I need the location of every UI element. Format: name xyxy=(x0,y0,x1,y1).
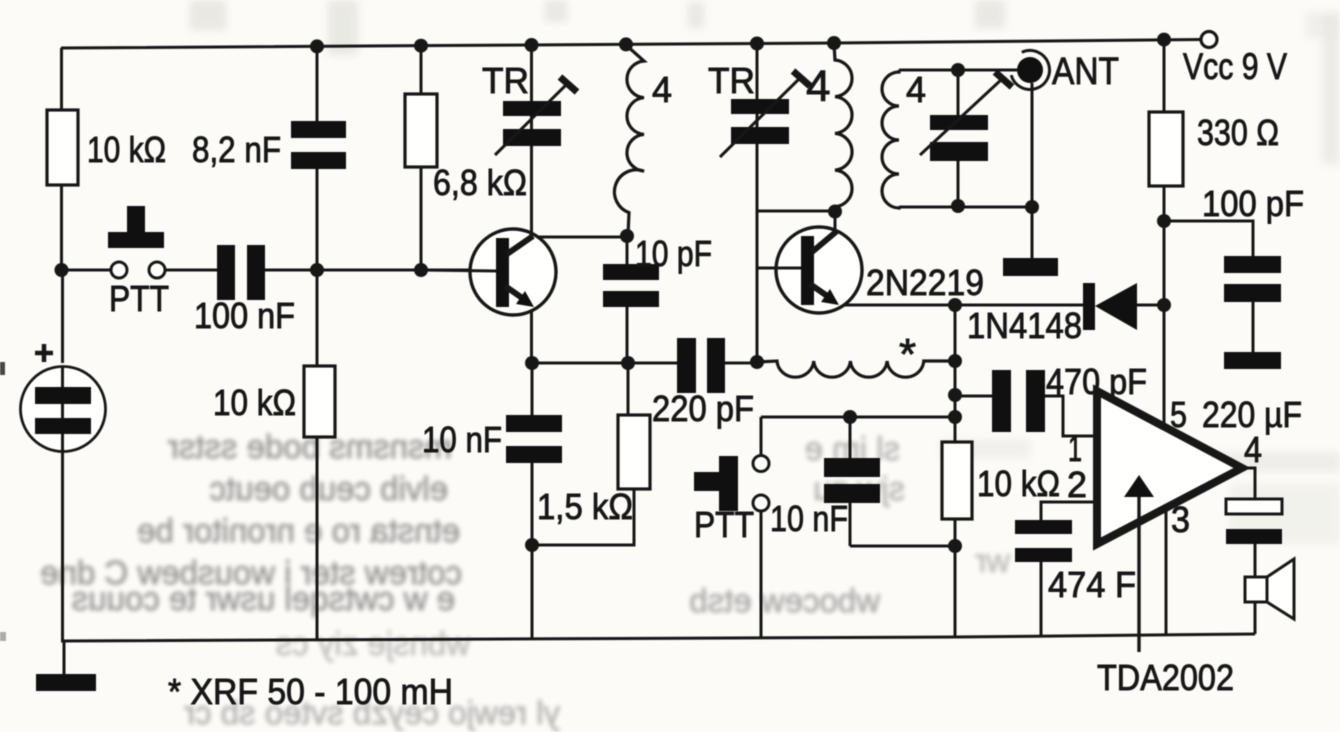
svg-text:4: 4 xyxy=(1244,429,1262,470)
svg-text:470 pF: 470 pF xyxy=(1046,361,1147,402)
node diode left xyxy=(948,298,962,312)
svg-text:Vcc 9 V: Vcc 9 V xyxy=(1183,46,1287,87)
svg-text:10 nF: 10 nF xyxy=(770,498,848,539)
wire mid row left of 220pF xyxy=(532,362,677,365)
wire diode row xyxy=(955,304,1164,307)
transistor Q1 xyxy=(421,229,556,315)
svg-text:5: 5 xyxy=(1170,394,1187,435)
svg-text:*: * xyxy=(899,330,916,379)
svg-text:PTT: PTT xyxy=(694,504,754,545)
node 1.5k bottom xyxy=(525,538,539,552)
wire tank top to ANT xyxy=(899,69,1017,72)
svg-text:1: 1 xyxy=(1068,428,1082,469)
wire Q2 base xyxy=(757,267,801,270)
wire opamp pin2 to 474F xyxy=(1041,502,1093,636)
node 10nF2 bottom xyxy=(948,539,962,553)
svg-text:10 pF: 10 pF xyxy=(635,233,712,274)
svg-text:2: 2 xyxy=(1067,464,1087,505)
svg-text:8,2 nF: 8,2 nF xyxy=(192,129,281,170)
wire opamp pin4 output xyxy=(1242,468,1255,634)
wire tank bottom row xyxy=(899,206,1032,209)
resistor R4 1.5k xyxy=(618,415,650,489)
resistor R2 10k (mic bias) xyxy=(304,366,335,437)
svg-text:3: 3 xyxy=(1171,499,1190,540)
inductor L3 transformer secondary 4 turns xyxy=(882,70,899,208)
wire PTT2 top row xyxy=(761,417,955,455)
wire opamp pin3 down xyxy=(1165,507,1168,634)
node PTT2 row xyxy=(948,410,962,424)
svg-text:wbocew etsb: wbocew etsb xyxy=(689,582,881,619)
switch PTT2 xyxy=(694,456,769,512)
node 10nF2 top xyxy=(843,410,857,424)
svg-text:TDA2002: TDA2002 xyxy=(1097,657,1234,698)
microphone MIC xyxy=(21,344,106,452)
capacitor C7 470pF xyxy=(992,370,1045,432)
wire bottom ground rail xyxy=(61,634,1255,641)
node PTT row R3 xyxy=(414,263,428,277)
wire Q1 collector node to L1 node xyxy=(532,236,628,239)
capacitor C9 474 xyxy=(1015,520,1072,562)
node 470pF xyxy=(948,388,962,402)
svg-text:10 nF: 10 nF xyxy=(422,419,502,460)
ground antenna tank xyxy=(1003,258,1058,276)
node L2 bottom xyxy=(828,205,842,219)
node rail C1 xyxy=(310,39,324,53)
wire 470pF to pin1 xyxy=(1045,396,1093,436)
svg-text:10 kΩ: 10 kΩ xyxy=(213,382,296,423)
svg-text:e w cwtsqel uswr te couus: e w cwtsqel uswr te couus xyxy=(72,580,455,617)
svg-text:1N4148: 1N4148 xyxy=(967,305,1082,346)
node 100pF branch xyxy=(1157,214,1171,228)
svg-text:ANT: ANT xyxy=(1052,51,1119,93)
svg-text:100 nF: 100 nF xyxy=(194,295,295,336)
wire column 955 node stack xyxy=(954,305,957,636)
wire ground stub left xyxy=(63,641,66,674)
node rail L2 xyxy=(827,36,841,50)
wire PTT2 bottom column xyxy=(760,511,763,637)
svg-text:220 pF: 220 pF xyxy=(652,388,754,429)
resistor R1 10k xyxy=(47,110,78,185)
node rail TR2 xyxy=(750,37,764,51)
capacitor C3 10pF xyxy=(603,264,659,307)
wire tank ground stub xyxy=(1031,207,1034,259)
node XRF right xyxy=(948,354,962,368)
svg-text:4: 4 xyxy=(906,69,926,110)
node PTT row left xyxy=(55,263,69,277)
wire Q2 collector stub xyxy=(834,212,837,230)
svg-text:wr: wr xyxy=(975,542,1011,579)
wire L1 bottom to 10pF xyxy=(626,236,629,363)
svg-text:2N2219: 2N2219 xyxy=(866,262,984,303)
svg-text:100 pF: 100 pF xyxy=(1202,183,1304,224)
svg-text:TR: TR xyxy=(708,60,755,101)
node rail Vcc xyxy=(1157,33,1171,47)
node rail TR1 xyxy=(525,38,539,52)
wire PTT1 row xyxy=(62,269,498,272)
svg-text:6,8 kΩ: 6,8 kΩ xyxy=(433,162,527,203)
wire mid row 220pF to node xyxy=(725,362,757,365)
transistor Q2 2N2219 xyxy=(776,227,862,313)
capacitor C1 8.2nF xyxy=(291,121,346,169)
capacitor C10 220uF electrolytic xyxy=(1226,499,1282,544)
TDA2002 pointer arrow xyxy=(1124,475,1154,652)
switch PTT1 xyxy=(108,206,165,278)
inductor L1 4 turns xyxy=(614,45,644,235)
resistor R6 330R xyxy=(1149,112,1183,186)
wire column trimmer1 / Q1 collector xyxy=(530,45,533,237)
node mid row 10nF xyxy=(525,356,539,370)
svg-text:etnsta ro e nronitor be: etnsta ro e nronitor be xyxy=(137,512,460,549)
speaker SPK xyxy=(1245,559,1294,619)
node mid row TR2 xyxy=(750,355,764,369)
ground mic xyxy=(36,674,96,691)
node mid row 1.5k xyxy=(621,356,635,370)
wire column 8.2nF/10k xyxy=(316,47,319,640)
svg-text:10 kΩ: 10 kΩ xyxy=(87,129,166,170)
wire trimmer3 column xyxy=(957,70,960,207)
svg-text:1,5 kΩ: 1,5 kΩ xyxy=(537,486,633,527)
capacitor C5 10nF xyxy=(506,415,562,463)
svg-text:* XRF 50 - 100 mH: * XRF 50 - 100 mH xyxy=(168,671,453,712)
wire 470pF left lead xyxy=(955,395,992,398)
wire 100pF branch xyxy=(1164,221,1253,352)
node PTT row C1 xyxy=(310,263,324,277)
capacitor C8 100pF xyxy=(1224,256,1281,302)
resistor R5 10k (amp input) xyxy=(942,442,972,519)
wire 10nF2 leads xyxy=(850,417,955,546)
node diode right xyxy=(1157,298,1171,312)
wire left column top (10k R1) xyxy=(60,48,63,270)
node tank bottom TR3 xyxy=(951,199,965,213)
wire column 6.8k xyxy=(420,46,423,270)
wire Q1 emitter down xyxy=(530,305,533,363)
node tank bottom ANT xyxy=(1025,200,1039,214)
edge artifact marks xyxy=(0,362,5,375)
wire column trimmer2 xyxy=(756,44,759,362)
wire trimmer2 to L2 bottom xyxy=(757,210,834,213)
trimmer TR3 (antenna tank) xyxy=(920,72,1012,161)
trimmer TR2 xyxy=(720,71,810,157)
capacitor C6 10nF (tone) xyxy=(824,458,880,503)
inductor XRF choke xyxy=(757,361,955,377)
svg-text:4: 4 xyxy=(806,62,830,111)
capacitor C4 220pF xyxy=(677,338,725,393)
wire 10nF1 column xyxy=(531,363,534,639)
svg-text:PTT: PTT xyxy=(109,278,169,319)
wire 1.5k leads xyxy=(532,363,634,545)
ground 100pF xyxy=(1224,352,1281,369)
inductor L2 4 turns xyxy=(834,44,852,211)
svg-text:474 F: 474 F xyxy=(1048,564,1136,605)
wire top Vcc rail xyxy=(61,40,1201,49)
diode D1 1N4148 xyxy=(1083,283,1137,330)
svg-text:330 Ω: 330 Ω xyxy=(1197,112,1279,153)
trimmer TR1 xyxy=(495,77,577,155)
node L1 bottom xyxy=(620,229,634,243)
terminal ANT xyxy=(1011,50,1049,89)
wire mic column xyxy=(61,270,64,641)
svg-text:10 kΩ: 10 kΩ xyxy=(977,463,1060,504)
node rail R3 xyxy=(414,39,428,53)
svg-text:wbnsje ziy cs: wbnsje ziy cs xyxy=(276,625,471,662)
wire ANT down to tank bottom xyxy=(1031,83,1034,207)
terminal Vcc xyxy=(1201,32,1217,48)
wire 330R column xyxy=(1163,40,1166,428)
svg-text:4: 4 xyxy=(652,69,672,110)
wire Q2 emitter row to diode node xyxy=(838,304,955,307)
capacitor C2 100nF xyxy=(217,245,265,300)
svg-text:TR: TR xyxy=(482,60,529,101)
node tank top xyxy=(951,63,965,77)
node rail L1 xyxy=(619,37,633,51)
resistor R3 6.8k xyxy=(405,94,437,167)
svg-text:elvib ceub oeutc: elvib ceub oeutc xyxy=(210,470,449,507)
op-amp U1 TDA2002 xyxy=(1097,391,1242,544)
